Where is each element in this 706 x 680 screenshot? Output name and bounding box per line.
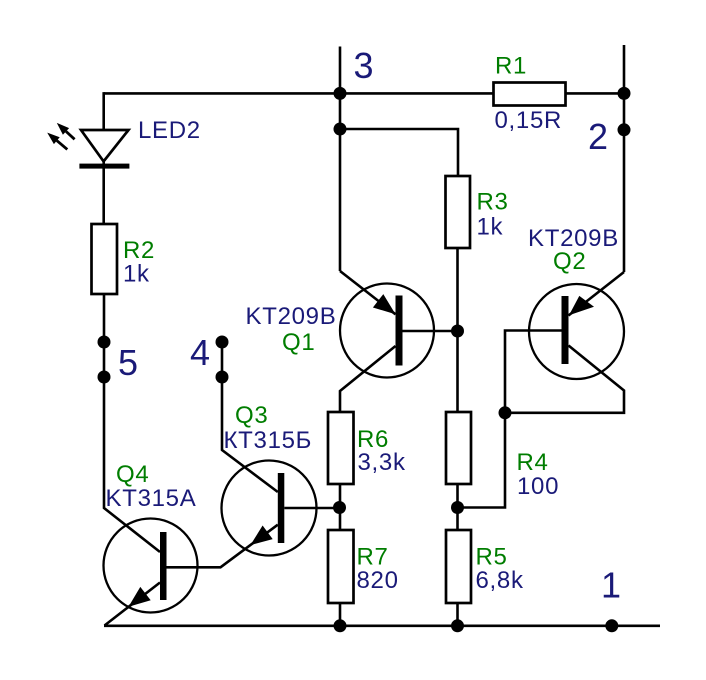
svg-text:Q1: Q1	[282, 329, 315, 356]
wire Q4 emitter diagonal	[105, 583, 161, 626]
ground junction R5	[451, 619, 464, 632]
resistor R3	[446, 176, 471, 248]
node 4 dots	[216, 336, 229, 349]
svg-text:Q3: Q3	[235, 402, 268, 429]
wire LED branch vertical	[102, 92, 105, 224]
LED LED2	[47, 123, 129, 169]
svg-text:КТ315Б: КТ315Б	[224, 427, 313, 454]
svg-text:6,8k: 6,8k	[476, 567, 524, 594]
svg-text:R1: R1	[495, 53, 527, 80]
wire node3 vertical	[339, 47, 342, 272]
wire Q1 base	[403, 330, 458, 333]
wire Q4 base / Q3 emitter	[167, 525, 278, 568]
svg-text:1: 1	[601, 564, 621, 605]
resistor R1	[494, 83, 566, 106]
wire Q2 emitter diagonal	[569, 272, 625, 316]
ground junction R7	[334, 619, 347, 632]
wire node2 vertical	[623, 45, 626, 272]
svg-text:2: 2	[588, 116, 608, 157]
wire Q2 collector link	[505, 346, 624, 413]
wire R4 to R5	[456, 484, 459, 530]
wire ground rail	[104, 624, 660, 627]
wire Q3 collector	[284, 507, 339, 510]
svg-text:1k: 1k	[123, 261, 150, 288]
svg-text:R4: R4	[517, 449, 549, 476]
svg-text:LED2: LED2	[138, 117, 201, 144]
resistor R5	[446, 530, 471, 603]
svg-text:4: 4	[190, 332, 210, 373]
transistor Q1	[340, 284, 434, 378]
svg-text:KT315A: KT315A	[106, 485, 197, 512]
transistor Q4	[104, 519, 198, 613]
wire node4 to Q3 base	[222, 342, 278, 492]
svg-text:Q4: Q4	[116, 461, 149, 488]
ground node 1 dot	[605, 619, 618, 632]
wire top rail left	[104, 92, 494, 95]
svg-text:3: 3	[354, 45, 374, 86]
svg-text:R3: R3	[477, 189, 509, 216]
svg-text:5: 5	[118, 342, 138, 383]
wire Q2 base	[505, 331, 562, 413]
wire R2 bottom to Q4 collector	[104, 294, 160, 552]
svg-text:Q2: Q2	[553, 248, 586, 275]
svg-text:1k: 1k	[477, 214, 504, 241]
R6/R7 junction	[333, 501, 346, 514]
R4/R5 junction	[451, 501, 464, 514]
node 2 junction dots	[618, 87, 631, 100]
svg-text:KT209B: KT209B	[246, 303, 337, 330]
resistor R2	[92, 224, 118, 294]
wire Q1 collector to R6	[340, 346, 396, 412]
wire R5 to ground	[456, 603, 459, 626]
wire node3 to R3	[340, 129, 458, 176]
resistor R6	[328, 412, 354, 484]
wire R6 to R7	[339, 484, 342, 530]
wire Q1 emitter diagonal	[340, 271, 396, 314]
Q1 base junction	[451, 325, 464, 338]
transistor Q2	[529, 284, 624, 379]
wire R7 to ground	[339, 603, 342, 626]
svg-text:3,3k: 3,3k	[358, 449, 406, 476]
wire R4R5 junction to Q2 base node	[458, 413, 506, 508]
resistor R7	[328, 530, 354, 603]
Q2 base/collector junction	[499, 406, 512, 419]
svg-text:0,15R: 0,15R	[495, 107, 563, 134]
node 5 dots	[98, 336, 111, 349]
transistor Q3	[222, 461, 317, 556]
node 3 junction dots	[334, 87, 347, 100]
resistor R4	[446, 412, 471, 484]
svg-text:820: 820	[357, 567, 399, 594]
svg-text:100: 100	[517, 473, 559, 500]
wire R3 to R4 column	[456, 248, 459, 412]
wire top rail right (R1 to node2 rail)	[566, 92, 625, 95]
